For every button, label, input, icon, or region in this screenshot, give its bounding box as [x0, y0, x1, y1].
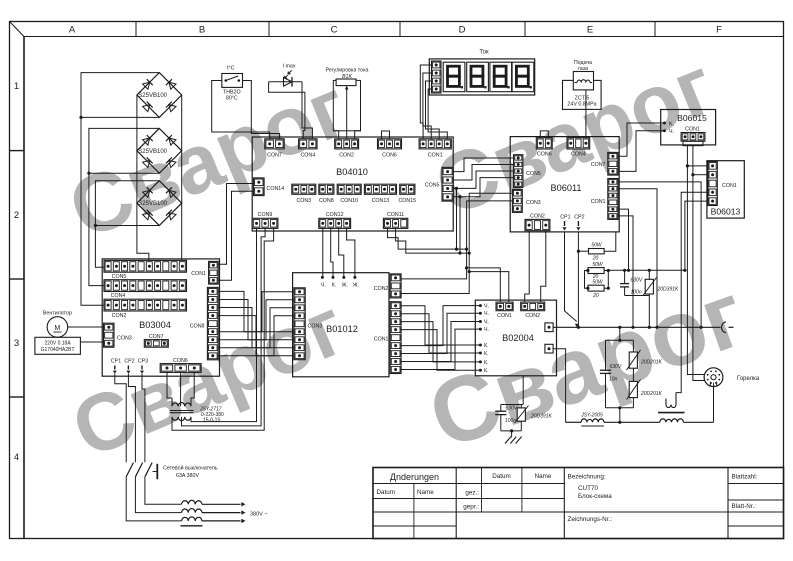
- wire CON2-CON2 w1: [525, 231, 530, 302]
- torch Горелка: [704, 368, 760, 387]
- svg-text:CON1: CON1: [428, 153, 443, 159]
- svg-text:CON12: CON12: [326, 212, 344, 218]
- wire CON3 B06011 p1 to busB: [469, 192, 512, 194]
- connector CON1 B06015 body: [681, 133, 705, 142]
- svg-text:CON1: CON1: [374, 337, 389, 343]
- wire display to CON1 w1: [420, 65, 431, 139]
- wire bridge3 + bus: [95, 181, 159, 268]
- svg-text:CON8: CON8: [319, 198, 334, 204]
- board B06011: [510, 137, 619, 232]
- transformer JSY-2717: [170, 402, 225, 423]
- capacitor C1 100n 630V: [624, 270, 626, 283]
- wire CON1-B02004 upper 2: [401, 314, 480, 353]
- svg-text:CON2: CON2: [525, 313, 540, 319]
- connector CON2 B04010: [335, 139, 359, 159]
- bracket R2 R3 right: [604, 271, 608, 289]
- svg-text:100n: 100n: [631, 290, 642, 296]
- gas valve ZCT-5 Подача газа: [563, 60, 602, 109]
- svg-text:E: E: [587, 25, 593, 36]
- wire CON9 p3 to transformer: [172, 228, 274, 430]
- svg-text:CON1: CON1: [497, 313, 512, 319]
- wire AC column left: [137, 95, 149, 260]
- svg-text:CON3: CON3: [117, 336, 132, 342]
- wire CP1 phase: [115, 374, 126, 463]
- svg-text:F: F: [716, 25, 722, 36]
- wire CON11 p2: [396, 228, 470, 253]
- svg-text:CON2: CON2: [112, 313, 127, 319]
- wire bridge1 -: [81, 116, 159, 118]
- wire phase1 out: [126, 477, 181, 521]
- wire CON1-B02004 lower 1: [401, 306, 480, 346]
- svg-text:CON3: CON3: [526, 200, 541, 206]
- breaker blades: [126, 463, 133, 477]
- wire loop bottom: [606, 407, 634, 409]
- svg-text:CON2: CON2: [339, 153, 354, 159]
- svg-text:gepr.:: gepr.:: [463, 504, 479, 511]
- row dividers: [10, 150, 25, 152]
- wire CON5-CON5 w2: [453, 165, 513, 181]
- wire LED left to CON4: [269, 82, 305, 139]
- svg-text:Регулировка тока: Регулировка тока: [325, 68, 368, 74]
- wire bridge1 + bus: [81, 73, 159, 306]
- wire CON5-CON5 w4: [453, 178, 513, 197]
- connector CON11 B04010: [383, 212, 407, 228]
- svg-text:CON6: CON6: [173, 358, 188, 364]
- snubber rail: [501, 404, 523, 406]
- svg-text:380V ~: 380V ~: [250, 512, 268, 518]
- svg-text:50W: 50W: [592, 280, 604, 286]
- varistor RV4 20D391K: [520, 405, 522, 408]
- wire phase3 out: [145, 477, 182, 505]
- svg-text:CP2: CP2: [574, 214, 584, 220]
- svg-text:CON1: CON1: [191, 271, 206, 277]
- wire CON14 to CON1 B03004 w1: [218, 184, 253, 265]
- svg-text:B: B: [199, 25, 205, 36]
- svg-text:CON1: CON1: [722, 183, 737, 189]
- connector CON5 B04010: [425, 167, 453, 201]
- svg-text:CON13: CON13: [372, 198, 390, 204]
- wire THB2O right to CON7: [243, 81, 280, 139]
- thermal switch THB2O: [222, 66, 243, 102]
- wire snubber bottom: [625, 295, 650, 297]
- svg-text:Zeichnungs-Nr.:: Zeichnungs-Nr.:: [568, 516, 613, 523]
- fan motor Вентилятор: [35, 311, 81, 355]
- svg-text:CON8: CON8: [190, 324, 205, 330]
- board B04010: [252, 137, 453, 231]
- wire loop top: [619, 327, 621, 340]
- jumper on CON6: [382, 131, 390, 139]
- connector CON9 B04010: [252, 212, 278, 228]
- connector CON1 B04010: [419, 139, 451, 159]
- connector CON12 B04010: [319, 212, 351, 228]
- wire CON6 p1 to transformer: [167, 372, 172, 406]
- varistor RV3 20D201K: [632, 368, 634, 381]
- wire B06015 CON1 p1 down to torch: [687, 146, 704, 375]
- capacitor C2 10n 630V: [605, 340, 607, 370]
- potentiometer B1K Регулировка тока: [325, 68, 368, 131]
- output pin 1 B02004: [545, 323, 553, 332]
- column dividers: [135, 22, 137, 37]
- svg-text:B06013: B06013: [711, 207, 741, 217]
- HF transformer core: [658, 412, 685, 414]
- svg-text:1: 1: [14, 81, 19, 92]
- wire B06013 p4 to rail: [685, 201, 708, 270]
- wire CP2 down: [577, 232, 579, 327]
- svg-text:Bezeichnung:: Bezeichnung:: [568, 474, 606, 481]
- svg-text:CON6: CON6: [382, 153, 397, 159]
- wire LED right to CON4: [302, 82, 312, 139]
- svg-text:S25VB100: S25VB100: [138, 149, 167, 155]
- svg-text:Ч.: Ч.: [484, 311, 489, 317]
- wire bridge2 + bus: [89, 128, 159, 285]
- pin K B06015: [663, 122, 666, 125]
- wire CON8-CON3 lower 3: [218, 308, 294, 348]
- svg-text:CON5: CON5: [112, 274, 127, 280]
- wire pot left to CON2: [333, 131, 338, 139]
- connector CON3 B04010: [292, 184, 316, 204]
- svg-text:CP1: CP1: [560, 214, 570, 220]
- LED I max: [269, 64, 302, 87]
- CP3 arrow B03004: [141, 366, 143, 370]
- wire bottom HF line: [566, 421, 582, 423]
- svg-text:К.: К.: [332, 282, 337, 288]
- svg-text:Blatt-Nr.:: Blatt-Nr.:: [732, 503, 757, 510]
- svg-text:Ч.: Ч.: [669, 129, 674, 135]
- svg-text:Ж.: Ж.: [353, 282, 359, 288]
- resistor R2 50W 20: [588, 268, 604, 274]
- svg-text:К.: К.: [484, 360, 489, 366]
- connector CON1 B03004: [191, 261, 218, 284]
- wire CON14 to CON1 B03004 w2: [218, 191, 253, 280]
- svg-text:Ч.: Ч.: [484, 304, 489, 310]
- wire CON6 p3 to transformer: [191, 372, 194, 406]
- output inductor L2: [182, 509, 203, 513]
- wire AC column right: [181, 95, 183, 260]
- pins К B02004: [479, 343, 489, 374]
- svg-text:CON7: CON7: [267, 153, 282, 159]
- connector CON3 B03004: [104, 323, 132, 347]
- connector CON1 B06011: [591, 179, 618, 220]
- svg-text:Горелка: Горелка: [737, 376, 760, 382]
- svg-text:CP2: CP2: [124, 359, 134, 365]
- svg-text:gez.:: gez.:: [465, 490, 479, 497]
- wire CP3 phase: [142, 374, 145, 463]
- wire B06013 p1 left: [687, 165, 708, 167]
- bracket R2 R3 left: [585, 271, 589, 289]
- connector CON1 B02004: [496, 302, 513, 319]
- wire B06013 p3 to primary: [676, 192, 708, 392]
- connector CON2 B06011: [525, 213, 550, 230]
- connector CON7 B06011: [591, 152, 618, 175]
- connector CON15 B04010: [398, 184, 416, 204]
- wire CON7 p2 to Ч: [618, 131, 664, 172]
- wire B06013 p2 left: [693, 174, 708, 176]
- board B03004: [102, 259, 219, 376]
- wire CON8-CON3 upper 1: [218, 291, 294, 331]
- varistor RV2 20D201K: [632, 340, 634, 352]
- svg-text:80°C: 80°C: [226, 96, 238, 102]
- pins Ч К Ж Ж B01012: [321, 276, 359, 288]
- svg-text:24V 0.8MPa: 24V 0.8MPa: [567, 102, 596, 108]
- connector CON1 B01012: [374, 302, 401, 374]
- svg-text:CON2: CON2: [530, 213, 545, 219]
- svg-text:Datum: Datum: [377, 489, 396, 496]
- wire bridge2 -: [89, 172, 159, 174]
- wire CON11 p1: [388, 228, 467, 249]
- wire CON12 p2: [331, 228, 333, 277]
- svg-text:B01012: B01012: [326, 324, 358, 334]
- connector CON7 B03004: [144, 334, 168, 347]
- breaker flag: [153, 471, 157, 473]
- connector CON2 B01012: [374, 274, 401, 298]
- connector CON3 B01012: [294, 288, 322, 360]
- wire CON5-CON5 w3: [453, 171, 513, 188]
- wire snubber bottom rail: [501, 430, 522, 432]
- wire CON7 p1 to K: [618, 123, 664, 156]
- wire B06011 CON1 p2: [618, 189, 657, 328]
- wire bridge3 -: [95, 225, 159, 227]
- svg-text:CON3: CON3: [308, 324, 323, 330]
- svg-text:К.: К.: [484, 351, 489, 357]
- svg-text:20D201K: 20D201K: [640, 360, 663, 366]
- rail to cap varistor: [608, 269, 685, 271]
- svg-text:A: A: [69, 25, 76, 36]
- svg-text:10n: 10n: [609, 377, 618, 383]
- wire torch bottom: [713, 387, 715, 423]
- resistor R3 50W 20: [588, 285, 604, 291]
- svg-text:B03004: B03004: [139, 320, 171, 330]
- title block lines: [373, 483, 564, 485]
- svg-text:Name: Name: [535, 473, 552, 480]
- wire tee down to CON11 run B: [459, 197, 461, 253]
- solenoid coil: [577, 80, 590, 83]
- svg-text:D: D: [459, 25, 466, 36]
- board B01012: [293, 273, 389, 377]
- wire pot right to CON2: [355, 131, 361, 139]
- svg-text:50W: 50W: [591, 243, 603, 249]
- connector CON2 B03004: [104, 299, 187, 319]
- board B02004: [475, 300, 556, 376]
- wire CON9 p1 to transformer: [191, 228, 257, 421]
- svg-text:CON1: CON1: [685, 127, 700, 133]
- wire CON8-CON3 lower 2: [218, 300, 294, 340]
- svg-text:M: M: [54, 325, 60, 332]
- wire CON12 p4: [347, 228, 355, 277]
- svg-text:3: 3: [14, 338, 19, 349]
- bridge rectifier D1 S25VB100: [137, 73, 182, 118]
- connector CON8 B03004: [190, 287, 218, 359]
- output pin 2 B02004: [545, 344, 553, 353]
- svg-text:63A 380V: 63A 380V: [176, 473, 199, 479]
- wire B02004 bottom to snubber: [522, 376, 524, 405]
- svg-text:2: 2: [14, 210, 19, 221]
- svg-text:S25VB100: S25VB100: [138, 201, 167, 207]
- svg-text:Ток: Ток: [479, 50, 489, 56]
- svg-text:630V: 630V: [610, 364, 622, 370]
- bracket under CON1 B06015: [683, 141, 703, 146]
- wire CON1-B02004 upper 1: [401, 306, 480, 345]
- node bridge2 bus: [87, 172, 90, 175]
- svg-text:Ж.: Ж.: [342, 282, 348, 288]
- wire busA to B02004 CON1 p1: [467, 268, 501, 302]
- connector CON7 B04010: [265, 139, 284, 159]
- connector CON4 B03004: [104, 280, 187, 300]
- HF transformer T2 secondary: [660, 419, 684, 423]
- connector CON2 B02004: [521, 302, 545, 319]
- svg-text:B06011: B06011: [551, 183, 582, 193]
- svg-text:CON14: CON14: [267, 186, 285, 192]
- svg-text:I max: I max: [283, 64, 296, 70]
- CP1 arrow: [564, 221, 566, 226]
- wire CON2-CON2 w2: [541, 231, 546, 302]
- wire pot wiper to CON2: [346, 131, 348, 139]
- main output wire -: [553, 326, 720, 328]
- svg-text:CON9: CON9: [258, 212, 273, 218]
- svg-text:630V: 630V: [506, 406, 518, 412]
- svg-text:CON3: CON3: [296, 198, 311, 204]
- output inductor L1: [182, 500, 203, 504]
- title block outer: [373, 468, 784, 539]
- svg-text:20D391K: 20D391K: [657, 287, 680, 293]
- svg-text:4: 4: [14, 452, 19, 463]
- wire CON9 p2 to transformer: [182, 228, 266, 426]
- wire CON1-B02004 lower 2: [401, 313, 480, 353]
- wire display to CON1 w4: [428, 89, 447, 139]
- svg-text:Дnderungen: Дnderungen: [390, 472, 439, 482]
- svg-text:CP3: CP3: [138, 359, 148, 365]
- node bridge3 bus: [94, 224, 97, 227]
- CP2 arrow: [577, 221, 579, 226]
- wire CON12 p1: [322, 228, 324, 277]
- connector CON14 B04010: [254, 178, 285, 196]
- connector CON6 B03004: [160, 358, 201, 372]
- display connector: [432, 61, 442, 93]
- svg-text:JSY-2005: JSY-2005: [580, 413, 603, 419]
- HF transformer T2 primary: [666, 405, 676, 408]
- wire CON6 p2 to transformer: [180, 372, 182, 406]
- wire R1 left: [578, 250, 588, 252]
- wire R1 right: [604, 232, 616, 251]
- connector CON8 B04010: [319, 184, 334, 204]
- node main line 619.8: [618, 326, 621, 329]
- wire CON1-B02004 lower 4: [401, 329, 480, 369]
- 7-segment display module: [429, 59, 534, 95]
- board B06015: [661, 110, 716, 145]
- ground: [505, 431, 522, 444]
- wire B02004 out2 to bottom line: [553, 349, 566, 423]
- svg-text:20D391K: 20D391K: [530, 414, 553, 420]
- svg-text:CON5: CON5: [425, 183, 440, 189]
- wire CON8-CON3 lower 1: [218, 292, 294, 332]
- svg-text:Ч.: Ч.: [484, 327, 489, 333]
- svg-text:К.: К.: [484, 368, 489, 374]
- svg-text:B06015: B06015: [677, 113, 707, 123]
- board B06013: [707, 161, 744, 218]
- wire CON8-CON3 upper 2: [218, 300, 294, 340]
- connector CON4 B06011: [567, 138, 590, 158]
- svg-text:CP1: CP1: [111, 359, 121, 365]
- CP2 arrow B03004: [127, 366, 129, 370]
- connector CON3 B06011: [512, 189, 540, 212]
- connector CON6 B06011: [536, 138, 552, 158]
- wire motor to CON3 w2: [80, 341, 103, 343]
- wire CON1-B02004 upper 3: [401, 322, 480, 362]
- svg-text:K.: K.: [669, 122, 674, 128]
- transformer bottom leads: [171, 417, 173, 430]
- svg-text:B02004: B02004: [502, 333, 534, 343]
- output inductor L3: [182, 517, 203, 521]
- pins Ч B02004: [479, 304, 489, 334]
- vertical bus B: [401, 193, 469, 293]
- connector CON5 B03004: [104, 260, 187, 279]
- wire busB to B02004 CON1 p2: [469, 272, 509, 303]
- svg-text:CON7: CON7: [591, 162, 606, 168]
- bridge rectifier D3 S25VB100: [137, 181, 182, 226]
- svg-text:50W: 50W: [592, 262, 604, 268]
- wire ZCT-5 to CON4: [585, 90, 587, 138]
- wire CP2 phase: [128, 374, 135, 463]
- connector CON1 B06013: [708, 162, 737, 206]
- svg-text:Сетевой выключатель: Сетевой выключатель: [163, 465, 218, 472]
- wire B06011 CON1 p1: [618, 182, 701, 327]
- wire CON8-CON3 upper 3: [218, 308, 294, 348]
- connector CON6 B04010: [378, 139, 402, 159]
- wire CON8-CON3 lower 4: [218, 316, 294, 356]
- wire display to CON1 w2: [423, 73, 432, 139]
- node busA CON11: [465, 248, 468, 251]
- svg-text:Ч.: Ч.: [321, 282, 326, 288]
- svg-text:20: 20: [592, 293, 599, 299]
- jumper on CON6 B06011: [540, 131, 548, 138]
- core bar L3: [181, 525, 203, 527]
- bridge rectifier D2 S25VB100: [137, 128, 182, 173]
- wire tee down to CON11 run A: [456, 188, 458, 249]
- svg-text:Name: Name: [417, 489, 434, 496]
- svg-text:630V: 630V: [631, 278, 643, 284]
- wire motor to CON3 w1: [68, 326, 104, 328]
- svg-text:К.: К.: [484, 343, 489, 349]
- connector CON10 B04010: [337, 184, 361, 204]
- capacitor C3 100n 630V: [500, 405, 502, 412]
- wire THB2O left to CON7: [212, 81, 270, 139]
- svg-text:CON7: CON7: [149, 334, 164, 340]
- svg-text:B04010: B04010: [336, 167, 368, 177]
- resistor R1 50W 20: [589, 249, 605, 254]
- wire CON1-B02004 upper 4: [401, 330, 480, 371]
- svg-text:CON11: CON11: [387, 212, 404, 218]
- svg-text:Ч.: Ч.: [484, 320, 489, 326]
- varistor RV1 20D391K: [648, 270, 650, 279]
- wire B06011 CON1 p5: [618, 216, 633, 327]
- wire B06011 CON1 p4: [618, 209, 629, 270]
- svg-text:Вентилятор: Вентилятор: [43, 311, 72, 317]
- wire CON5-CON5 w1: [453, 158, 513, 172]
- wire CON8-CON3 upper 4: [218, 316, 294, 356]
- vertical bus A: [401, 201, 467, 279]
- wire CON1-B02004 lower 3: [401, 322, 480, 362]
- connector CON4 B04010: [299, 139, 317, 159]
- svg-text:t°C: t°C: [227, 66, 235, 72]
- svg-text:CON10: CON10: [340, 198, 358, 204]
- svg-text:CUT70: CUT70: [578, 485, 598, 492]
- svg-text:15-0-15: 15-0-15: [203, 418, 220, 424]
- frame inner lines: [24, 36, 784, 38]
- svg-text:20D201K: 20D201K: [640, 391, 663, 397]
- svg-text:CON1: CON1: [591, 199, 606, 205]
- wire CP1 down: [565, 232, 577, 322]
- svg-text:CON6: CON6: [537, 151, 552, 157]
- svg-text:CON4: CON4: [111, 293, 126, 299]
